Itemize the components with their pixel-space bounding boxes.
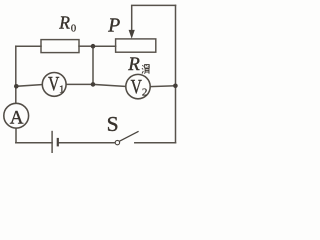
wire: bottom left from border to battery — [16, 142, 52, 144]
wire: vertical link node B to node C — [92, 46, 94, 84]
wiper arrowhead — [129, 30, 135, 39]
wire: top-right wiper feed horizontal — [132, 4, 176, 6]
potentiometer P (rheostat box) — [116, 39, 156, 52]
wire: battery to switch pivot — [58, 142, 115, 144]
wire: node C to V2 — [93, 84, 126, 86]
resistor R0 — [41, 40, 79, 53]
switch lever — [120, 131, 139, 141]
svg-text:R: R — [127, 54, 140, 75]
voltmeter V2 — [126, 74, 150, 98]
node A junction dot (left border / V1 branch) — [14, 84, 19, 89]
wire: V1 to node C — [66, 83, 93, 85]
wire: left border vertical lower (ammeter to bottom corner) — [15, 128, 17, 143]
svg-text:2: 2 — [142, 86, 148, 98]
node C junction dot (V row / link) — [91, 82, 96, 87]
wire: switch fixed contact to right border — [135, 142, 176, 144]
wiper arrow shaft — [131, 5, 133, 31]
svg-text:V: V — [131, 76, 142, 98]
svg-text:V: V — [48, 73, 59, 95]
wire: V2 to node D on right border — [150, 85, 175, 88]
node B junction dot (top wire / link) — [91, 44, 96, 49]
wire: right border vertical — [175, 5, 177, 142]
voltmeter V1 — [42, 73, 66, 97]
wire: R0 to node B horizontal — [79, 45, 93, 47]
wire: node A to voltmeter V1 — [16, 85, 42, 87]
wire: top-left horizontal from left border to R0 — [16, 45, 41, 47]
svg-text:A: A — [10, 107, 24, 128]
svg-text:P: P — [107, 16, 120, 37]
svg-text:S: S — [107, 112, 119, 136]
battery: long positive plate — [51, 131, 53, 153]
battery: short negative plate — [57, 138, 59, 147]
svg-text:1: 1 — [59, 83, 65, 95]
switch S pivot circle — [115, 140, 119, 144]
wire: left border vertical upper (corner to ammeter) — [15, 46, 17, 103]
svg-text:0: 0 — [71, 24, 76, 35]
glyph hua (Chinese subscript), hand drawn — [142, 65, 149, 74]
wire: node B to rheostat horizontal — [93, 45, 116, 47]
ammeter A — [4, 103, 29, 128]
node D junction dot (right border / V2) — [173, 84, 178, 89]
svg-text:R: R — [58, 12, 70, 32]
